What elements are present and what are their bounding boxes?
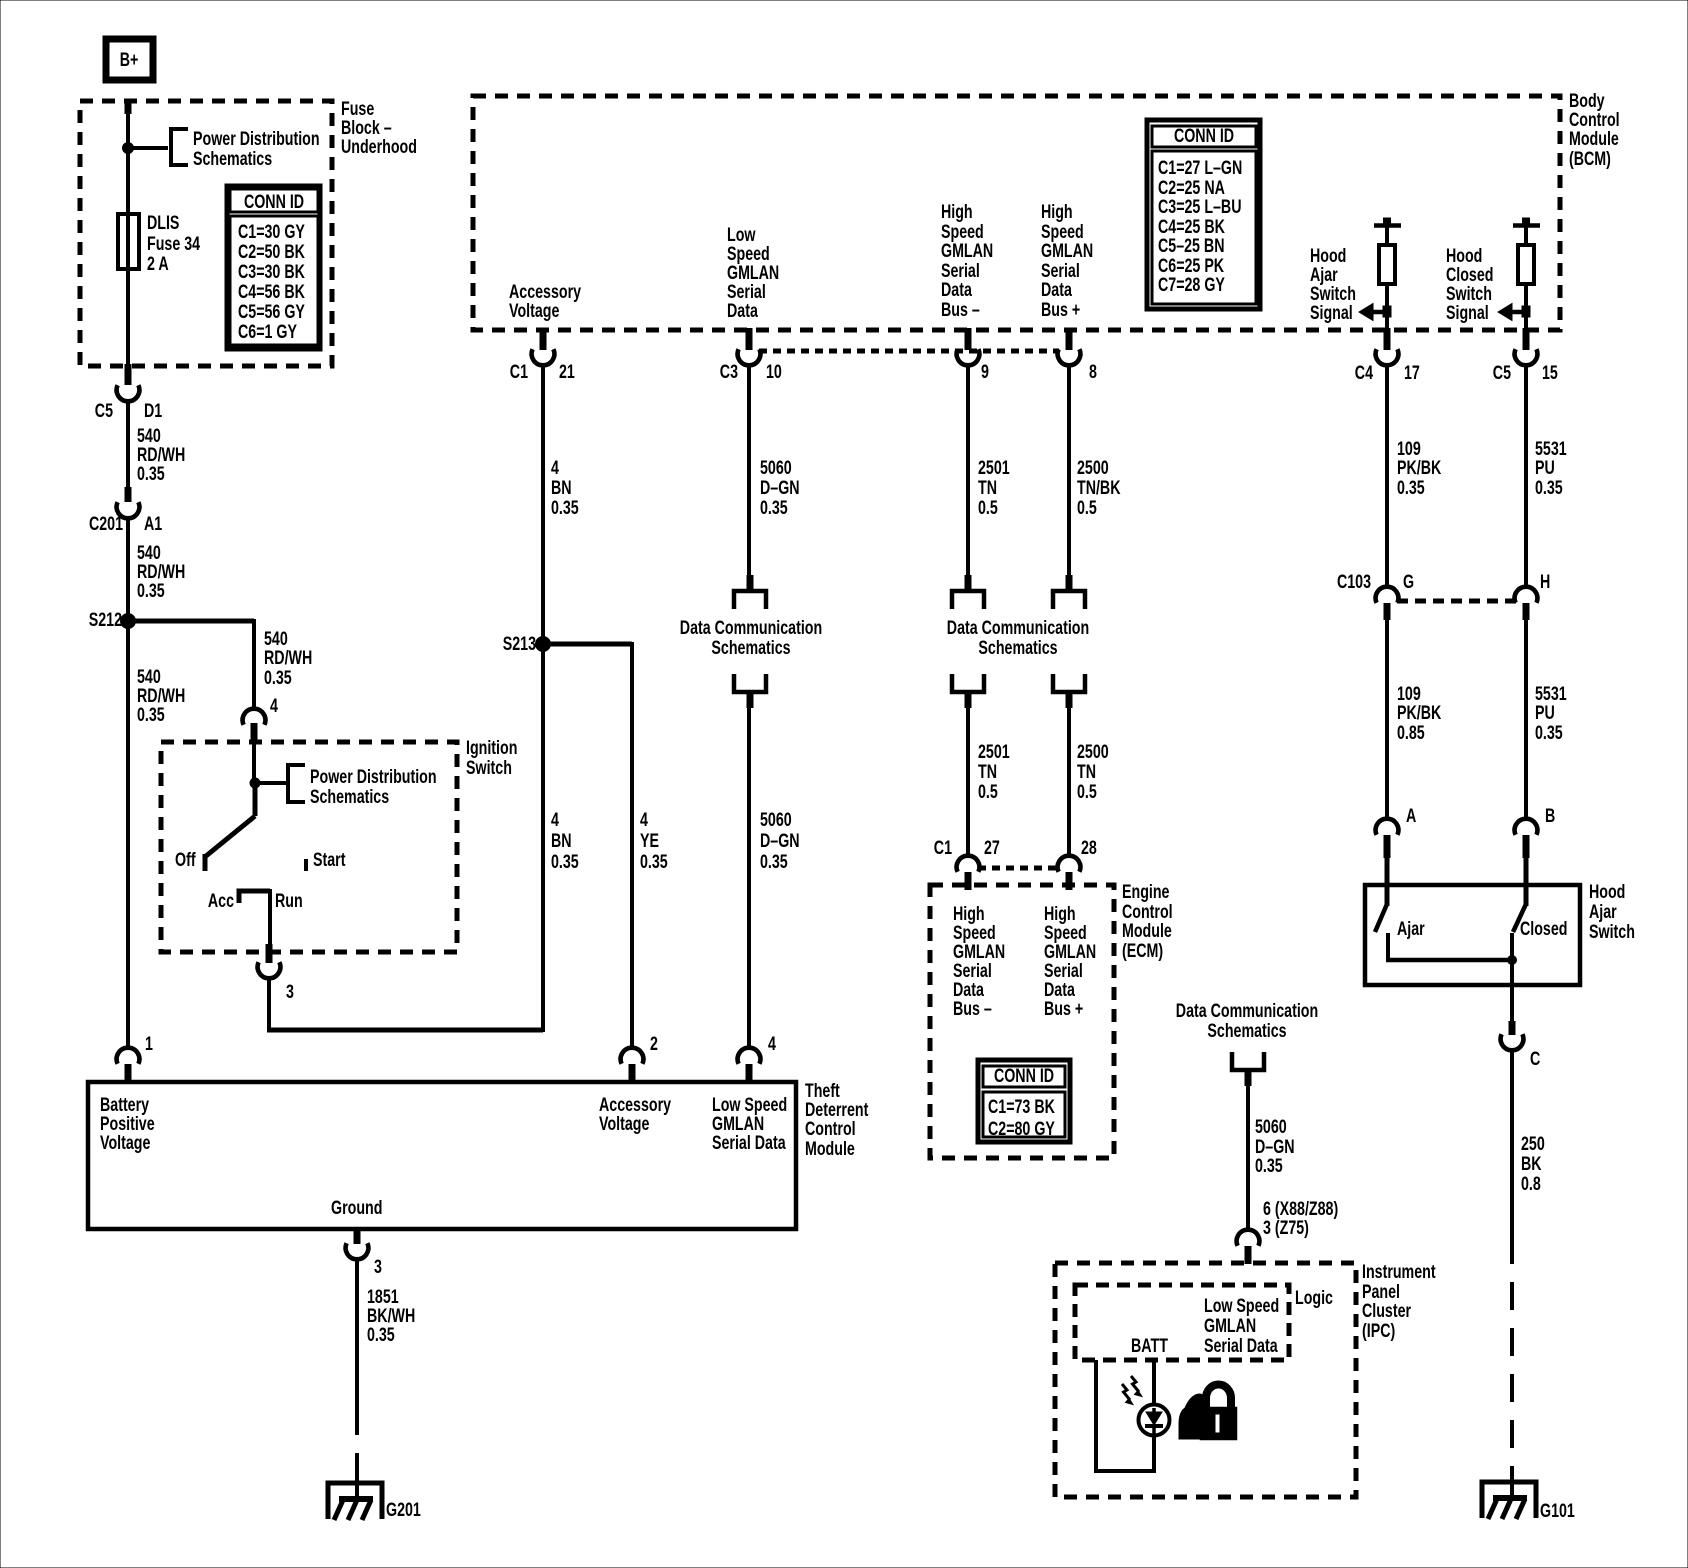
svg-text:Data: Data xyxy=(941,279,972,300)
node hood switch common junction xyxy=(1508,956,1517,965)
svg-text:Off: Off xyxy=(175,849,196,870)
svg-text:9: 9 xyxy=(981,361,989,382)
svg-text:Module: Module xyxy=(1122,920,1172,941)
svg-text:PK/BK: PK/BK xyxy=(1397,457,1441,478)
svg-text:BN: BN xyxy=(551,477,572,498)
label Low Speed GMLAN Serial Data (BCM pin 10) xyxy=(727,224,779,321)
svg-text:(ECM): (ECM) xyxy=(1122,940,1163,961)
connector C5 pin 15 (hood closed) xyxy=(1493,328,1558,384)
svg-text:Schematics: Schematics xyxy=(310,786,389,807)
wire 5060 D-GN 0.35 (to theft module pin 4) xyxy=(747,708,751,1047)
svg-text:C5=56 GY: C5=56 GY xyxy=(238,301,305,322)
connector pin into IPC xyxy=(1237,1230,1260,1264)
svg-text:4: 4 xyxy=(551,457,559,478)
svg-text:G: G xyxy=(1403,571,1414,592)
fuse DLIS Fuse 34 2A xyxy=(118,214,139,269)
body control module dashed box xyxy=(473,96,1560,330)
svg-text:Logic: Logic xyxy=(1295,1287,1333,1308)
svg-text:2501: 2501 xyxy=(978,741,1010,762)
label 5531 PU 0.35 (lower) xyxy=(1535,683,1567,743)
node junction at fuse block feed xyxy=(123,143,134,154)
fuse block - underhood dashed box xyxy=(80,101,332,366)
wire 2500 TN/BK 0.5 (pin 8 down) xyxy=(1067,366,1071,577)
svg-text:0.35: 0.35 xyxy=(1535,477,1563,498)
svg-text:0.35: 0.35 xyxy=(1535,722,1563,743)
svg-text:C103: C103 xyxy=(1337,571,1371,592)
svg-text:0.35: 0.35 xyxy=(640,851,668,872)
splice S212 xyxy=(89,609,136,630)
label High Speed GMLAN Serial Data Bus + (BCM pin 8) xyxy=(1041,201,1093,320)
svg-text:Data: Data xyxy=(727,300,758,321)
svg-text:(BCM): (BCM) xyxy=(1569,148,1611,169)
svg-text:Power Distribution: Power Distribution xyxy=(310,766,437,787)
wire junction to power distribution reference xyxy=(126,146,168,150)
label pin 6 (X88/Z88) 3 (Z75) xyxy=(1263,1198,1338,1238)
wire pin A into switch box xyxy=(1385,858,1390,906)
svg-text:5060: 5060 xyxy=(1255,1116,1287,1137)
label Accessory Voltage (BCM pin 21) xyxy=(509,281,582,321)
label 109 PK/BK 0.35 (lower) xyxy=(1397,683,1441,743)
svg-text:0.5: 0.5 xyxy=(1077,781,1097,802)
contact Start xyxy=(306,849,346,871)
svg-text:C1=27 L–GN: C1=27 L–GN xyxy=(1158,157,1242,178)
svg-text:2500: 2500 xyxy=(1077,457,1109,478)
wire 109 PK/BK 0.35 (G to A) xyxy=(1385,620,1389,818)
label Theft Deterrent Control Module xyxy=(805,1080,869,1159)
svg-text:C1: C1 xyxy=(934,837,952,858)
svg-text:Low Speed: Low Speed xyxy=(1204,1295,1279,1316)
label 540 RD/WH 0.35 (battery feed) xyxy=(137,666,185,725)
wire 5060 D-GN 0.35 (to IPC) xyxy=(1246,1086,1250,1229)
svg-text:Cluster: Cluster xyxy=(1362,1300,1411,1321)
connector pin 4 (theft deterrent module) xyxy=(738,1033,777,1082)
svg-text:D1: D1 xyxy=(144,400,162,421)
svg-text:Run: Run xyxy=(275,890,303,911)
security indicator LED (IPC) xyxy=(1122,1360,1170,1436)
wire junction to fuse DLIS xyxy=(126,148,130,216)
connector pin 2 (theft deterrent module) xyxy=(621,1033,658,1082)
svg-text:0.85: 0.85 xyxy=(1397,722,1425,743)
svg-text:TN/BK: TN/BK xyxy=(1077,477,1121,498)
svg-text:TN: TN xyxy=(978,761,997,782)
label 109 PK/BK 0.35 xyxy=(1397,438,1441,498)
wire 4 BN 0.35 (pin 21 to S213) xyxy=(541,366,545,644)
wire 540 RD/WH 0.35 (C201 to S212) xyxy=(126,519,130,621)
svg-text:C5: C5 xyxy=(95,400,113,421)
hood ajar switch blade (Closed) xyxy=(1513,904,1567,940)
svg-text:0.5: 0.5 xyxy=(978,497,998,518)
label 2501 TN 0.5 (lower) xyxy=(978,741,1010,802)
svg-text:G201: G201 xyxy=(386,1499,421,1520)
svg-text:Ajar: Ajar xyxy=(1397,918,1425,939)
svg-text:A1: A1 xyxy=(144,513,162,534)
svg-text:B+: B+ xyxy=(120,49,139,70)
theft deterrent control module box xyxy=(88,1082,796,1229)
svg-text:0.8: 0.8 xyxy=(1521,1173,1541,1194)
svg-text:DLIS: DLIS xyxy=(147,212,179,233)
label 5531 PU 0.35 xyxy=(1535,438,1567,498)
svg-text:Schematics: Schematics xyxy=(193,148,272,169)
svg-text:GMLAN: GMLAN xyxy=(941,240,993,261)
wire 540 RD/WH 0.35 (C5 to C201) xyxy=(126,402,130,488)
connector pin B (hood ajar switch) xyxy=(1515,805,1556,858)
label 4 BN 0.35 xyxy=(551,457,579,518)
connector C4 pin 17 (hood ajar) xyxy=(1355,328,1420,384)
label Hood Closed Switch Signal xyxy=(1446,245,1493,323)
svg-text:Bus –: Bus – xyxy=(941,299,980,320)
ground G101 xyxy=(1482,1468,1575,1522)
off-page reference Data Communication Schematics (high speed pair) xyxy=(947,575,1089,708)
wire B+ feed into fuse block xyxy=(125,100,132,146)
svg-text:Signal: Signal xyxy=(1446,302,1489,323)
wire 5060 D-GN 0.35 (pin 10 down) xyxy=(747,366,751,577)
wire pin B into switch box xyxy=(1524,858,1529,906)
svg-text:Serial Data: Serial Data xyxy=(1204,1335,1278,1356)
svg-text:Schematics: Schematics xyxy=(1207,1020,1286,1041)
wire closed contact through common xyxy=(1510,933,1514,1023)
svg-text:D–GN: D–GN xyxy=(760,830,800,851)
label High Speed GMLAN Serial Data Bus + (ECM pin 28) xyxy=(1044,903,1096,1019)
svg-text:0.35: 0.35 xyxy=(264,667,292,688)
svg-text:C2=50 BK: C2=50 BK xyxy=(238,241,305,262)
connector ID table CONN ID (ECM) xyxy=(978,1060,1070,1142)
svg-text:15: 15 xyxy=(1542,362,1558,383)
svg-text:17: 17 xyxy=(1404,362,1420,383)
svg-text:0.35: 0.35 xyxy=(760,497,788,518)
engine control module dashed box xyxy=(930,885,1114,1158)
label 5060 D-GN 0.35 (IPC) xyxy=(1255,1116,1295,1176)
svg-text:GMLAN: GMLAN xyxy=(1204,1315,1256,1336)
svg-text:0.35: 0.35 xyxy=(137,580,165,601)
svg-text:Acc: Acc xyxy=(208,890,234,911)
label Off contact xyxy=(175,849,196,870)
svg-text:C1: C1 xyxy=(510,361,528,382)
svg-text:5060: 5060 xyxy=(760,809,792,830)
svg-text:2500: 2500 xyxy=(1077,741,1109,762)
connector pin A (hood ajar switch) xyxy=(1376,805,1417,858)
svg-text:G101: G101 xyxy=(1540,1500,1575,1521)
label Ground xyxy=(331,1197,382,1218)
svg-text:C3=30 BK: C3=30 BK xyxy=(238,261,305,282)
svg-text:Voltage: Voltage xyxy=(599,1113,649,1134)
svg-text:0.5: 0.5 xyxy=(1077,497,1097,518)
svg-text:Signal: Signal xyxy=(1310,302,1353,323)
dotted harness line ECM pins 27-28 xyxy=(978,866,1059,871)
label Engine Control Module (ECM) xyxy=(1122,881,1173,961)
label 540 RD/WH 0.35 xyxy=(137,425,185,484)
svg-text:2 A: 2 A xyxy=(147,253,169,274)
svg-text:0.35: 0.35 xyxy=(1397,477,1425,498)
off-page reference Data Communication Schematics (low speed) xyxy=(680,575,822,708)
connector pin 3 (ignition switch bottom) xyxy=(258,944,294,1003)
label Hood Ajar Switch xyxy=(1589,881,1635,942)
svg-text:TN: TN xyxy=(1077,761,1096,782)
svg-text:0.35: 0.35 xyxy=(1255,1155,1283,1176)
svg-text:BN: BN xyxy=(551,830,572,851)
connector C103 pin G xyxy=(1337,571,1414,620)
label Fuse Block - Underhood xyxy=(341,98,417,157)
svg-text:3 (Z75): 3 (Z75) xyxy=(1263,1217,1309,1238)
svg-text:C4=56 BK: C4=56 BK xyxy=(238,281,305,302)
label Instrument Panel Cluster (IPC) xyxy=(1362,1261,1436,1341)
svg-text:Underhood: Underhood xyxy=(341,136,417,157)
svg-text:C1=30 GY: C1=30 GY xyxy=(238,221,305,242)
connector C5 pin D1 xyxy=(95,364,162,422)
label 4 BN 0.35 (below S213) xyxy=(551,809,579,872)
connector pin 4 (ignition switch) xyxy=(243,695,279,744)
label 540 RD/WH 0.35 xyxy=(137,542,185,601)
resistor (hood ajar pull-up) xyxy=(1379,245,1395,284)
svg-text:Data Communication: Data Communication xyxy=(947,617,1089,638)
svg-text:Switch: Switch xyxy=(466,757,512,778)
svg-text:Schematics: Schematics xyxy=(978,637,1057,658)
connector C201 pin A1 xyxy=(89,487,162,535)
svg-text:Switch: Switch xyxy=(1589,921,1635,942)
label 5060 D-GN 0.35 (lower) xyxy=(760,809,800,872)
svg-text:B: B xyxy=(1545,805,1555,826)
svg-text:Engine: Engine xyxy=(1122,881,1169,902)
instrument panel cluster dashed box xyxy=(1055,1263,1356,1497)
wire resistor to hood closed signal junction xyxy=(1524,284,1528,330)
svg-text:Module: Module xyxy=(1569,128,1619,149)
svg-text:C2=80 GY: C2=80 GY xyxy=(988,1118,1055,1139)
svg-text:Schematics: Schematics xyxy=(711,637,790,658)
connector ID table CONN ID (fuse block) xyxy=(227,186,320,349)
svg-text:Data Communication: Data Communication xyxy=(680,617,822,638)
connector pin 8 (GMLAN bus +) xyxy=(1058,328,1097,383)
svg-text:C7=28 GY: C7=28 GY xyxy=(1158,274,1225,295)
svg-text:CONN ID: CONN ID xyxy=(1174,125,1234,146)
svg-text:Closed: Closed xyxy=(1520,918,1567,939)
svg-text:0.35: 0.35 xyxy=(551,497,579,518)
svg-text:H: H xyxy=(1540,571,1550,592)
svg-text:Bus +: Bus + xyxy=(1044,998,1083,1019)
svg-text:0.35: 0.35 xyxy=(137,704,165,725)
splice S213 xyxy=(503,633,551,654)
reference bracket Power Distribution Schematics (ignition switch) xyxy=(288,765,437,808)
label Body Control Module (BCM) xyxy=(1569,90,1620,169)
connector ID table CONN ID (BCM) xyxy=(1147,120,1260,309)
svg-text:TN: TN xyxy=(978,477,997,498)
wire S212 branch to ignition switch xyxy=(126,619,254,708)
wire ignition pin 3 to accessory voltage node xyxy=(267,646,543,1032)
wire LED return loop xyxy=(1096,1360,1156,1473)
svg-text:CONN ID: CONN ID xyxy=(244,191,304,212)
svg-text:PU: PU xyxy=(1535,457,1555,478)
label 4 YE 0.35 xyxy=(640,809,668,872)
label High Speed GMLAN Serial Data Bus - (ECM pin 27) xyxy=(953,903,1005,1019)
svg-text:Bus –: Bus – xyxy=(953,998,992,1019)
arrow hood ajar switch signal xyxy=(1359,304,1391,321)
svg-text:0.5: 0.5 xyxy=(978,781,998,802)
svg-text:C5–25 BN: C5–25 BN xyxy=(1158,235,1224,256)
connector C1 pin 27 (ECM) xyxy=(934,837,1000,890)
svg-text:BK: BK xyxy=(1521,1153,1542,1174)
wire 2500 TN 0.5 (to ECM pin 28) xyxy=(1067,708,1071,855)
battery positive voltage symbol B+ xyxy=(106,39,153,80)
label Low Speed GMLAN Serial Data (IPC logic) xyxy=(1204,1295,1279,1356)
svg-text:2501: 2501 xyxy=(978,457,1010,478)
svg-text:Power Distribution: Power Distribution xyxy=(193,128,320,149)
svg-text:3: 3 xyxy=(286,981,294,1002)
svg-text:0.35: 0.35 xyxy=(367,1324,395,1345)
label 5060 D-GN 0.35 xyxy=(760,457,800,518)
svg-text:Ground: Ground xyxy=(331,1197,382,1218)
svg-text:C: C xyxy=(1530,1048,1540,1069)
svg-text:0.35: 0.35 xyxy=(137,463,165,484)
dashed harness line C103 G-H xyxy=(1397,599,1516,604)
svg-text:PK/BK: PK/BK xyxy=(1397,702,1441,723)
svg-text:250: 250 xyxy=(1521,1133,1545,1154)
wire 5531 PU 0.35 (C5/15 to C103 H) xyxy=(1524,366,1528,587)
svg-text:10: 10 xyxy=(766,361,782,382)
label 540 RD/WH 0.35 (branch) xyxy=(264,628,312,688)
svg-text:1: 1 xyxy=(145,1033,153,1054)
wire S212 down to theft deterrent module pin 1 xyxy=(126,621,130,1047)
svg-text:27: 27 xyxy=(984,837,1000,858)
svg-text:Start: Start xyxy=(313,849,346,870)
label 2500 TN/BK 0.5 xyxy=(1077,457,1121,518)
svg-text:Instrument: Instrument xyxy=(1362,1261,1436,1282)
label DLIS Fuse 34 2A xyxy=(147,212,201,274)
label 1851 BK/WH 0.35 xyxy=(367,1286,415,1345)
svg-text:0.35: 0.35 xyxy=(760,851,788,872)
wire 2501 TN 0.5 (pin 9 down) xyxy=(966,366,970,577)
BCM internal voltage source (hood closed) xyxy=(1513,218,1540,245)
connector pin 28 (ECM) xyxy=(1058,837,1097,890)
svg-text:Data Communication: Data Communication xyxy=(1176,1000,1318,1021)
svg-text:C1=73 BK: C1=73 BK xyxy=(988,1096,1055,1117)
svg-text:YE: YE xyxy=(640,830,659,851)
svg-text:Hood: Hood xyxy=(1589,881,1625,902)
security icon padlock with vehicle xyxy=(1179,1385,1236,1440)
svg-text:PU: PU xyxy=(1535,702,1555,723)
svg-text:0.35: 0.35 xyxy=(551,851,579,872)
svg-text:Control: Control xyxy=(805,1118,856,1139)
svg-text:4: 4 xyxy=(551,809,559,830)
BCM internal voltage source (hood ajar) xyxy=(1374,218,1401,245)
svg-text:BATT: BATT xyxy=(1131,1335,1169,1356)
svg-text:28: 28 xyxy=(1081,837,1097,858)
connector pin 1 (theft deterrent module) xyxy=(117,1033,153,1082)
svg-text:Module: Module xyxy=(805,1138,855,1159)
hood ajar switch blade (Ajar) xyxy=(1375,904,1425,940)
svg-text:Ignition: Ignition xyxy=(466,737,517,758)
svg-text:Fuse 34: Fuse 34 xyxy=(147,233,201,254)
ignition switch dashed box xyxy=(161,742,457,952)
connector C1 pin 21 (accessory voltage) xyxy=(510,328,575,383)
svg-text:4: 4 xyxy=(270,695,278,716)
label 2501 TN 0.5 xyxy=(978,457,1010,518)
svg-text:8: 8 xyxy=(1089,361,1097,382)
connector pin 3 (theft module ground) xyxy=(346,1229,382,1278)
wire 2501 TN 0.5 (to ECM pin 27) xyxy=(966,708,970,855)
reference bracket Power Distribution Schematics (fuse block) xyxy=(171,128,320,169)
svg-text:A: A xyxy=(1406,805,1416,826)
label BATT xyxy=(1131,1335,1169,1356)
label Low Speed GMLAN Serial Data (theft module) xyxy=(712,1094,787,1153)
node ignition switch feed junction xyxy=(250,778,260,788)
wire junction to power distribution reference (ignition) xyxy=(253,781,286,785)
wire 250 BK 0.8 to G101 xyxy=(1510,1051,1514,1480)
arrow hood closed switch signal xyxy=(1498,304,1530,321)
off-page reference Data Communication Schematics (IPC) xyxy=(1176,1000,1318,1086)
svg-text:3: 3 xyxy=(374,1256,382,1277)
svg-text:RD/WH: RD/WH xyxy=(264,647,312,668)
svg-text:S212: S212 xyxy=(89,609,122,630)
svg-text:2: 2 xyxy=(650,1033,658,1054)
svg-text:C3=25 L–BU: C3=25 L–BU xyxy=(1158,196,1242,217)
dotted harness line pins 10-9-8 xyxy=(759,349,1059,354)
connector C3 pin 10 (low speed GMLAN) xyxy=(720,328,782,383)
svg-text:5060: 5060 xyxy=(760,457,792,478)
svg-text:Voltage: Voltage xyxy=(100,1132,150,1153)
wire fuse to connector C5 xyxy=(126,269,130,366)
svg-text:4: 4 xyxy=(768,1033,776,1054)
svg-text:21: 21 xyxy=(559,361,575,382)
svg-text:C201: C201 xyxy=(89,513,123,534)
label Accessory Voltage (theft module) xyxy=(599,1094,672,1134)
wire Run terminal down xyxy=(268,889,272,946)
svg-text:D–GN: D–GN xyxy=(760,477,800,498)
ground G201 xyxy=(328,1468,421,1521)
connector pin C (hood switch common) xyxy=(1501,1021,1541,1070)
label Ignition Switch xyxy=(466,737,517,778)
wire 109 PK/BK 0.35 (C4/17 to C103 G) xyxy=(1385,366,1389,587)
svg-text:S213: S213 xyxy=(503,633,536,654)
svg-text:C5: C5 xyxy=(1493,362,1511,383)
svg-text:4: 4 xyxy=(640,809,648,830)
svg-text:High: High xyxy=(1041,201,1073,222)
contact Acc and Run terminal xyxy=(208,890,303,911)
wire resistor to hood ajar signal junction xyxy=(1385,284,1389,330)
label 250 BK 0.8 xyxy=(1521,1133,1545,1194)
svg-text:Serial Data: Serial Data xyxy=(712,1132,786,1153)
label Battery Positive Voltage xyxy=(100,1094,155,1153)
label 2500 TN 0.5 (lower) xyxy=(1077,741,1109,802)
svg-text:C3: C3 xyxy=(720,361,738,382)
svg-text:C6=1 GY: C6=1 GY xyxy=(238,321,297,342)
wire pin 4 into ignition switch xyxy=(252,742,256,781)
connector pin 9 (GMLAN bus -) xyxy=(957,328,989,383)
label Logic xyxy=(1295,1287,1333,1308)
label Hood Ajar Switch Signal xyxy=(1310,245,1356,323)
wire ajar contact to common xyxy=(1386,933,1512,960)
svg-text:Ajar: Ajar xyxy=(1589,901,1617,922)
wire 1851 BK/WH 0.35 to G201 xyxy=(355,1260,359,1480)
resistor (hood closed pull-up) xyxy=(1518,245,1534,284)
hood ajar switch box xyxy=(1365,885,1580,985)
svg-text:(IPC): (IPC) xyxy=(1362,1320,1395,1341)
svg-text:Data: Data xyxy=(1041,279,1072,300)
svg-text:CONN ID: CONN ID xyxy=(994,1065,1054,1086)
logic block dashed box (IPC) xyxy=(1075,1285,1289,1360)
ignition switch movable blade xyxy=(205,783,255,871)
svg-text:GMLAN: GMLAN xyxy=(1041,240,1093,261)
wire S213 branch to theft module pin 2 xyxy=(541,642,632,1047)
connector C103 pin H xyxy=(1515,571,1551,620)
svg-text:Bus +: Bus + xyxy=(1041,299,1080,320)
wire 5531 PU 0.35 (H to B) xyxy=(1524,620,1528,818)
label High Speed GMLAN Serial Data Bus - (BCM pin 9) xyxy=(941,201,993,320)
svg-text:Voltage: Voltage xyxy=(509,300,559,321)
svg-text:C4: C4 xyxy=(1355,362,1374,383)
svg-text:High: High xyxy=(941,201,973,222)
